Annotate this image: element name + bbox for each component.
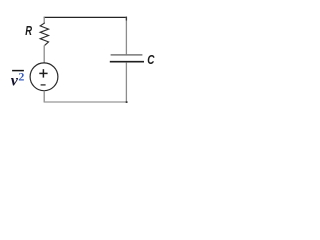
resistor R1 zigzag [40,23,48,46]
wire left vertical below source [43,91,45,102]
minus sign inside source [41,84,46,86]
wire left vertical between resistor and source [43,45,45,63]
capacitor C1 top plate [111,54,143,56]
wire left vertical stub above resistor [43,17,45,23]
capacitor C1 bottom plate [110,61,144,63]
wire corner dark dot bottom-right [126,101,128,103]
wire right vertical upper (top rail corner down to capacitor) [125,17,127,55]
wire bottom rail [44,101,127,103]
svg-text:2: 2 [18,69,24,83]
wire top rail [44,16,127,18]
plus sign inside source [39,72,47,74]
svg-text:R: R [25,23,32,38]
voltage source V1 circle [30,63,58,91]
svg-text:C: C [147,52,155,67]
wire corner dark stub at top-right [125,17,127,21]
label v-bar-squared overline [12,70,24,72]
wire right vertical lower (capacitor down to bottom rail) [125,62,127,102]
